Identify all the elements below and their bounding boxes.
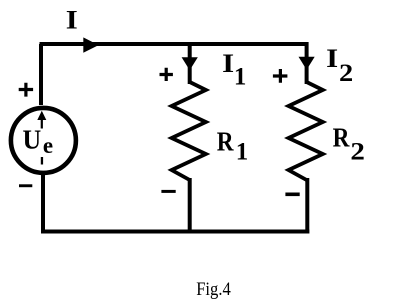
node: R2 branch top corner / vertical lead — [305, 42, 309, 84]
arrowhead current I2 — [299, 57, 315, 70]
svg-text:R: R — [217, 126, 234, 156]
svg-text:1: 1 — [236, 139, 249, 166]
plus sign at source — [19, 83, 33, 97]
plus sign at R2 — [273, 69, 288, 83]
svg-text:I: I — [222, 49, 234, 78]
svg-text:1: 1 — [234, 64, 247, 91]
svg-text:Fig.4: Fig.4 — [196, 279, 231, 300]
node: R1 branch top junction / vertical lead — [188, 44, 192, 84]
wire: R2 bottom lead — [305, 178, 309, 234]
voltage source U_e circle — [11, 108, 76, 173]
source internal arrow head (up) — [37, 111, 46, 120]
wire: R1 bottom lead — [188, 178, 192, 234]
arrowhead current I on top wire — [83, 37, 98, 52]
wire: bottom horizontal from left corner to right corner — [41, 230, 309, 234]
wire: top horizontal from left corner to right corner — [40, 42, 309, 46]
source internal arrow tail dash — [41, 157, 43, 165]
minus sign at R1 — [161, 190, 175, 193]
minus sign at R2 — [285, 193, 299, 197]
wire: left vertical from source bottom to bottom-left corner — [41, 175, 45, 234]
svg-text:I: I — [326, 44, 338, 73]
svg-text:I: I — [66, 5, 78, 34]
resistor R1 zigzag — [172, 82, 206, 180]
svg-text:2: 2 — [339, 60, 353, 87]
resistor R2 zigzag — [289, 82, 323, 180]
minus sign at source — [19, 184, 32, 187]
svg-text:U: U — [23, 124, 42, 154]
wire: left vertical from top-left corner down to source top — [39, 44, 43, 105]
svg-text:e: e — [43, 133, 53, 158]
svg-text:2: 2 — [350, 138, 365, 165]
arrowhead current I1 — [182, 57, 198, 70]
svg-text:R: R — [333, 123, 350, 153]
plus sign at R1 — [160, 68, 173, 81]
source internal arrow shaft — [41, 119, 43, 129]
